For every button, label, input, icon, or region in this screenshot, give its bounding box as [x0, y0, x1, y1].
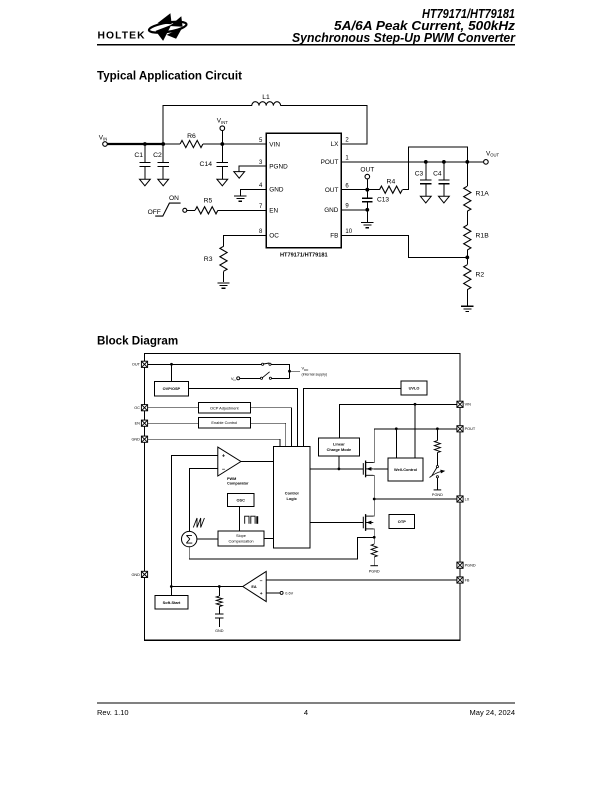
port LX right: [457, 496, 463, 502]
node VIN rail junction: [414, 403, 417, 406]
ground C1: [140, 179, 151, 186]
wire OUT port to supply switch: [148, 363, 262, 365]
ground C4: [439, 196, 450, 203]
wire GND pin 4: [240, 189, 266, 195]
svg-text:C4: C4: [433, 171, 442, 178]
block OTP: [389, 514, 415, 528]
wire R5 to EN pin 7: [218, 209, 266, 211]
wire R6 to VIN pin 5: [203, 143, 266, 145]
svg-text:Comparator: Comparator: [227, 481, 249, 485]
wire PWM plus input: [171, 455, 218, 586]
svg-text:Rev. 1.10: Rev. 1.10: [97, 708, 129, 717]
port GND left: [141, 571, 147, 577]
wire R1A to R1B: [466, 211, 468, 225]
node R1A junction: [465, 160, 469, 164]
svg-text:OSC: OSC: [236, 498, 245, 503]
wire EA plus to reference: [266, 592, 280, 594]
block UVLO: [401, 381, 427, 395]
ground GND pin 4: [234, 196, 246, 201]
wire C3 to ground: [425, 184, 427, 197]
port GND left: [141, 436, 147, 442]
wire LX to Q2 drain: [373, 499, 375, 516]
svg-text:Σ: Σ: [186, 534, 193, 546]
resistor R6: [180, 140, 203, 147]
ground R3: [217, 283, 229, 288]
svg-text:LX: LX: [331, 141, 340, 148]
node soft-start junction: [170, 585, 173, 588]
wire Vdd node to label: [290, 370, 301, 372]
port EN left: [141, 420, 147, 426]
node EA output junction: [218, 585, 221, 588]
svg-text:Charge Mode: Charge Mode: [327, 447, 352, 452]
switch discharge lever: [432, 468, 437, 476]
svg-text:ON: ON: [169, 195, 179, 202]
wire C13 to GND pin 9: [366, 202, 368, 210]
svg-text:GND: GND: [324, 207, 339, 214]
switch discharge arrow: [430, 472, 442, 478]
wire control logic to Q2 gate: [310, 522, 364, 524]
svg-text:LX: LX: [465, 497, 470, 501]
ground C14: [217, 179, 228, 186]
wire sigma to current sense: [189, 537, 373, 559]
svg-text:PGND: PGND: [269, 163, 288, 170]
wire OC port to OCP block: [148, 407, 199, 409]
svg-text:VIN: VIN: [269, 141, 280, 148]
resistor R3: [220, 246, 227, 271]
wire OC pin 8 to R3: [224, 235, 267, 246]
wire switch to R5: [187, 209, 195, 211]
wire FB port to EA minus: [266, 579, 457, 581]
wire R1B to node: [466, 250, 468, 257]
terminal 0.6V reference: [280, 591, 283, 594]
svg-text:HT79171/HT79181: HT79171/HT79181: [280, 253, 328, 259]
wire slope compensation to control logic: [264, 537, 274, 539]
wire EA output to comp resistor: [218, 587, 220, 597]
wire C4 to rail: [443, 162, 445, 180]
wire OCP block to control logic: [250, 408, 291, 447]
resistor current sense: [371, 544, 377, 557]
block OSC: [227, 493, 254, 506]
wire L1 to LX pin 2: [281, 106, 367, 144]
wire PWM output to control logic: [241, 461, 274, 463]
svg-text:POUT: POUT: [465, 427, 476, 431]
block OVP/OSP: [154, 382, 188, 396]
ground C2: [158, 179, 169, 186]
wire rail to R6: [163, 143, 180, 145]
wire rail to R1A: [466, 162, 468, 186]
footer rule: [97, 702, 515, 704]
switch VIN supply contact b: [269, 377, 271, 379]
capacitor C14: [217, 163, 228, 167]
terminal VIN: [103, 142, 108, 147]
block Slope Compensation: [218, 531, 264, 546]
wire VIN rail to well-control: [414, 404, 416, 458]
port POUT right: [457, 426, 463, 432]
svg-text:10: 10: [345, 229, 352, 235]
wire PWM minus input: [190, 468, 218, 531]
node LX junction: [373, 498, 376, 501]
wire resistor to switch: [436, 453, 438, 466]
header rule: [97, 44, 515, 46]
svg-text:Slope: Slope: [236, 533, 246, 538]
wire comp capacitor down: [218, 618, 220, 627]
summing node sigma: [182, 531, 197, 546]
switch VIN supply contact a: [260, 377, 262, 379]
wire junction down to OVP/OSP: [171, 364, 173, 381]
svg-text:OVP/OSP: OVP/OSP: [163, 386, 181, 391]
svg-text:OC: OC: [134, 406, 140, 410]
svg-text:HOLTEK: HOLTEK: [98, 31, 146, 42]
svg-text:Synchronous Step-Up PWM Conver: Synchronous Step-Up PWM Converter: [292, 30, 516, 45]
resistor R4: [380, 186, 403, 193]
svg-text:R6: R6: [187, 133, 196, 140]
port OUT left: [141, 361, 147, 367]
resistor compensation: [216, 596, 222, 606]
wire pin 9 to ground: [366, 210, 368, 222]
svg-text:EN: EN: [269, 208, 278, 215]
ground pin 9: [361, 222, 373, 227]
wire Q2 source down: [372, 529, 375, 537]
node OUT to OVP junction: [170, 363, 173, 366]
wire control logic to Q1 gate: [310, 468, 364, 470]
svg-text:R2: R2: [476, 271, 485, 278]
wire POUT port rail: [374, 429, 457, 463]
svg-text:OUT: OUT: [360, 167, 374, 174]
wire OVP/OSP to control logic: [189, 389, 298, 447]
svg-text:R1B: R1B: [476, 233, 490, 240]
svg-text:GND: GND: [131, 438, 140, 442]
svg-text:GND: GND: [215, 629, 224, 633]
wire sense resistor to PGND stub: [373, 557, 375, 566]
wire FB pin 10: [341, 235, 467, 257]
wire GND port to control logic: [148, 439, 280, 446]
resistor R1A: [464, 186, 471, 211]
svg-text:Block Diagram: Block Diagram: [97, 334, 178, 347]
node C4 junction: [442, 160, 446, 164]
terminal switch pole: [183, 208, 187, 212]
wire PGND pin 3: [239, 166, 266, 172]
wire switch to PGND stub: [436, 478, 438, 490]
svg-text:OCP Adjustment: OCP Adjustment: [210, 405, 240, 410]
svg-text:C1: C1: [134, 152, 143, 159]
wire Vin to switch: [240, 377, 261, 379]
node C3 junction: [424, 160, 428, 164]
block diagram outer boundary: [145, 354, 461, 641]
svg-text:PWM: PWM: [227, 477, 236, 481]
resistor POUT discharge: [434, 441, 440, 453]
svg-text:−: −: [260, 580, 263, 585]
wire sigma to slope compensation: [197, 538, 218, 540]
wire comp resistor to capacitor: [218, 607, 220, 614]
svg-text:PGND: PGND: [432, 493, 443, 497]
PGND stub bar: [434, 489, 442, 491]
terminal VOUT: [484, 160, 489, 165]
svg-text:Well-Control: Well-Control: [394, 467, 417, 472]
wire OUT pin 6: [341, 189, 379, 191]
node Q1 gate junction: [338, 468, 341, 471]
svg-text:OUT: OUT: [325, 187, 339, 194]
transistor Q1 isolation PMOS: [363, 461, 373, 478]
wire junction to soft-start: [170, 587, 172, 596]
svg-text:R4: R4: [387, 178, 396, 185]
wire LX port rail: [374, 498, 457, 500]
svg-text:Logic: Logic: [287, 496, 298, 501]
op-amp EA error amplifier: [243, 571, 266, 601]
block Enable Control: [198, 417, 250, 428]
svg-text:EA: EA: [251, 585, 257, 589]
svg-text:C13: C13: [377, 196, 389, 203]
svg-text:+: +: [260, 592, 263, 597]
svg-text:C14: C14: [200, 161, 213, 168]
Holtek logo mark: [148, 13, 187, 41]
svg-text:PGND: PGND: [369, 569, 380, 573]
svg-text:Linear: Linear: [333, 441, 345, 446]
wire R3 to ground: [223, 271, 225, 282]
svg-text:VIN: VIN: [465, 403, 472, 407]
svg-text:0.6V: 0.6V: [285, 591, 293, 595]
wire C14 to rail: [221, 144, 223, 163]
resistor R2: [464, 265, 471, 290]
wire R2 to ground: [466, 290, 468, 306]
wire POUT junction to resistor: [436, 429, 438, 441]
svg-text:OTP: OTP: [398, 519, 406, 524]
switch ON/OFF: [155, 203, 180, 216]
wire POUT pin 1 rail: [341, 161, 483, 163]
switch VIN supply lever open: [262, 372, 269, 378]
svg-text:R3: R3: [204, 256, 213, 263]
wire C3 to rail: [425, 162, 427, 180]
svg-text:C3: C3: [415, 171, 424, 178]
switch OUT supply contact a: [262, 363, 264, 365]
ground C3: [420, 196, 431, 203]
node GND pin 9 junction: [365, 208, 369, 212]
svg-text:EN: EN: [135, 422, 141, 426]
wire VIN port rail: [339, 404, 457, 438]
node FB divider junction: [465, 256, 469, 260]
switch OUT supply contact b: [269, 363, 271, 365]
terminal Vin switch: [237, 377, 240, 380]
svg-text:R5: R5: [204, 198, 213, 205]
svg-text:May 24, 2024: May 24, 2024: [470, 708, 515, 717]
ground PGND pin 3: [234, 172, 245, 179]
switch OUT supply lever: [263, 363, 269, 364]
op-amp PWM comparator: [218, 447, 241, 476]
svg-text:POUT: POUT: [321, 159, 339, 166]
wire rail up to L1: [163, 106, 252, 144]
port OC left: [141, 405, 147, 411]
svg-text:OFF: OFF: [148, 209, 161, 216]
node VINT junction: [220, 142, 224, 146]
wire OUT node to C13: [366, 190, 368, 199]
svg-text:Compensation: Compensation: [228, 539, 253, 544]
svg-text:UVLO: UVLO: [409, 385, 420, 390]
terminal OUT: [365, 174, 370, 179]
svg-text:Enable Control: Enable Control: [211, 420, 237, 425]
block OCP Adjustment: [198, 403, 250, 413]
svg-text:Typical Application Circuit: Typical Application Circuit: [97, 70, 242, 83]
transistor Q2 power NMOS: [363, 514, 373, 531]
port FB right: [457, 577, 463, 583]
wire Q1 drain up: [372, 429, 375, 463]
svg-text:OC: OC: [269, 233, 279, 240]
svg-text:4: 4: [304, 708, 308, 717]
node OUT junction: [365, 188, 369, 192]
wire C4 to ground: [443, 184, 445, 197]
capacitor C3: [420, 180, 431, 184]
sawtooth waveform icon: [193, 518, 204, 528]
node POUT wellcontrol junction: [395, 427, 398, 430]
svg-text:OUT: OUT: [132, 363, 141, 367]
node Vdd junction: [288, 370, 291, 373]
svg-text:(internal supply): (internal supply): [302, 372, 328, 376]
switch discharge contact a: [436, 466, 438, 468]
wire POUT rail to well-control: [395, 429, 397, 458]
wire C2 to rail: [162, 144, 164, 163]
svg-text:PGND: PGND: [465, 564, 476, 568]
wire VIN bold segment: [107, 143, 163, 145]
wire switch b to Vdd node: [272, 377, 290, 379]
wire C14 to ground: [221, 167, 223, 180]
node POUT resistor junction: [436, 427, 439, 430]
wire C2 to ground: [162, 167, 164, 180]
resistor R5: [195, 207, 218, 214]
block Linear Charge Mode: [318, 438, 359, 456]
wire R4 over to VOUT node: [402, 147, 467, 190]
terminal VINT: [220, 126, 225, 131]
capacitor C2: [158, 163, 169, 167]
wire OSC to slope compensation: [239, 506, 241, 531]
wire GND pin 9: [341, 209, 367, 211]
wire EN port to Enable block: [148, 422, 199, 424]
wire Linear Charge Mode to gate node: [338, 456, 340, 469]
node C2 junction: [161, 142, 165, 146]
svg-text:C2: C2: [153, 152, 162, 159]
wire Q2 source to sense resistor: [373, 537, 375, 544]
svg-text:Control: Control: [285, 491, 299, 496]
inductor L1: [252, 102, 281, 106]
node C1 junction: [143, 142, 147, 146]
wire C1 to ground: [144, 167, 146, 180]
wire C1 to rail: [144, 144, 146, 163]
port PGND right: [457, 562, 463, 568]
capacitor C1: [139, 163, 150, 167]
block Control Logic: [274, 447, 310, 549]
ground R2: [461, 306, 473, 311]
pulse waveform icon: [245, 516, 255, 524]
svg-text:L1: L1: [262, 94, 270, 101]
op-amp U1 HT79171/HT79181 IC body: [266, 133, 341, 248]
capacitor C13: [362, 198, 372, 202]
wire node to R2: [466, 257, 468, 264]
svg-text:R1A: R1A: [476, 191, 490, 198]
svg-text:GND: GND: [131, 573, 140, 577]
wire EA output: [171, 586, 243, 588]
wire UVLO to control logic: [304, 389, 401, 447]
capacitor C4: [438, 180, 449, 184]
block Soft-Start: [155, 596, 188, 610]
wire Enable block to control logic: [250, 423, 285, 446]
wire Q1 body to well-control: [373, 468, 388, 470]
resistor R1B: [464, 225, 471, 250]
switch discharge contact b: [436, 476, 438, 478]
wire Q1 source to LX: [372, 475, 375, 499]
svg-text:GND: GND: [269, 187, 284, 194]
wire switch to Vdd node top: [271, 364, 289, 378]
wire OUT terminal to node: [366, 179, 368, 190]
wire Q2 drain up: [372, 499, 375, 516]
node Q2 source junction: [373, 536, 376, 539]
block Well-Control: [388, 458, 423, 481]
wire VINT to rail: [221, 131, 223, 144]
PGND stub bar 2: [370, 565, 378, 567]
capacitor compensation: [215, 614, 223, 618]
svg-text:Soft-Start: Soft-Start: [163, 600, 181, 605]
svg-text:FB: FB: [330, 233, 338, 240]
svg-text:FB: FB: [465, 578, 470, 582]
port VIN right: [457, 401, 463, 407]
